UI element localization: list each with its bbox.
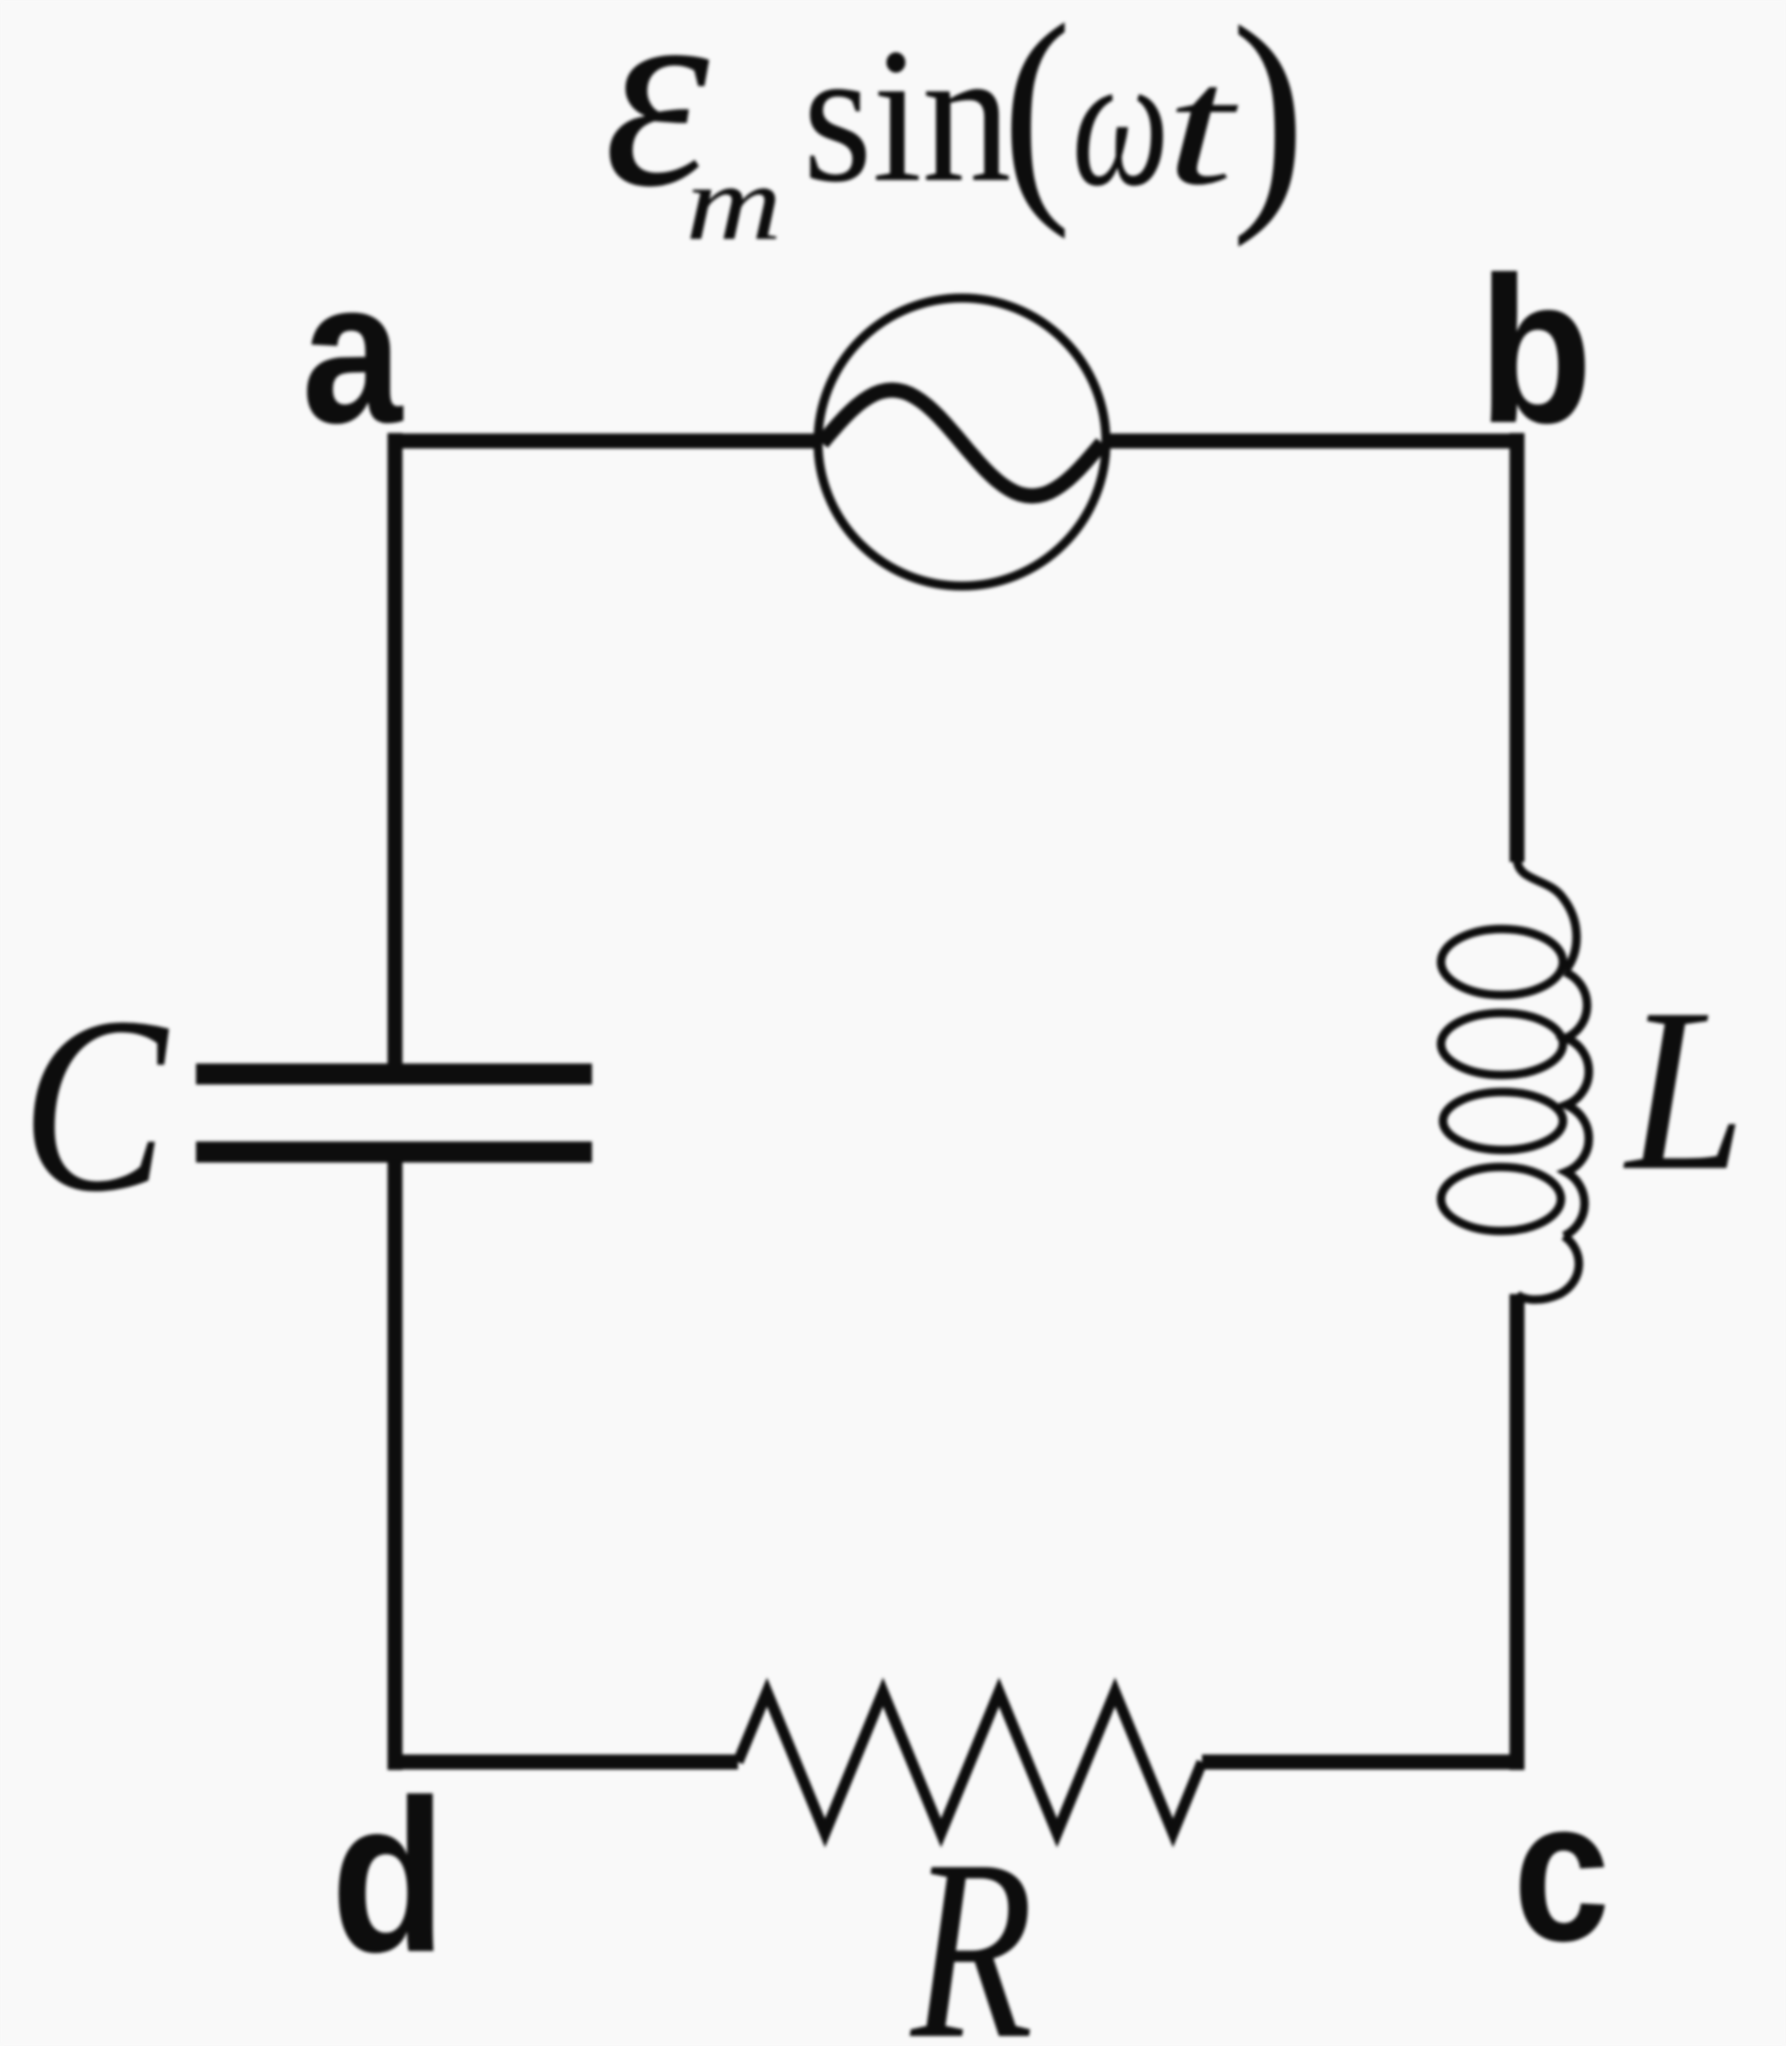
svg-text:L: L [1623, 960, 1746, 1219]
svg-text:c: c [1513, 1758, 1610, 1983]
svg-text:a: a [302, 238, 404, 465]
svg-text:m: m [686, 144, 783, 263]
svg-text:R: R [909, 1806, 1033, 2046]
svg-text:d: d [331, 1755, 446, 1998]
svg-text:b: b [1478, 234, 1592, 467]
svg-text:): ) [1231, 0, 1305, 248]
svg-text:ω: ω [1072, 15, 1169, 227]
svg-text:t: t [1166, 32, 1239, 221]
svg-text:C: C [21, 965, 169, 1244]
svg-text:sin: sin [803, 9, 1012, 223]
svg-text:(: ( [1002, 0, 1071, 240]
